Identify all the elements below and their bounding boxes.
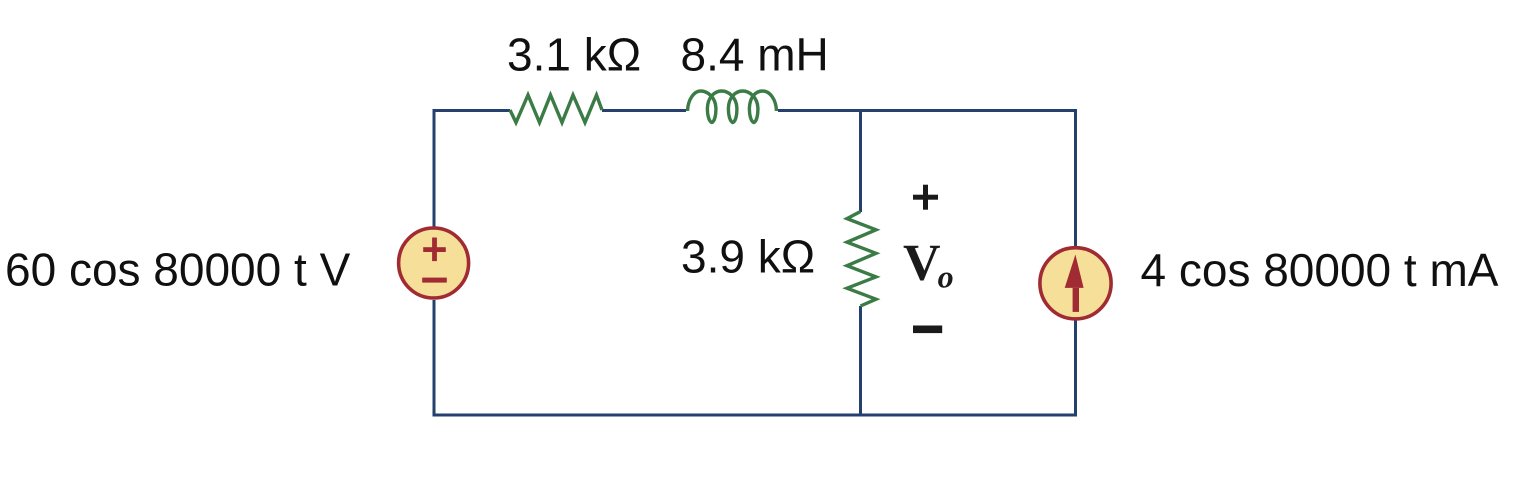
inductor L1 8.4 mH (coil) xyxy=(688,91,777,123)
wire middle branch lower xyxy=(859,306,862,415)
wire right lower xyxy=(1074,321,1077,417)
svg-text:Vo: Vo xyxy=(903,235,954,295)
wire top-left segment xyxy=(433,111,1078,417)
wire bottom rail xyxy=(433,414,1078,417)
wire middle branch upper xyxy=(859,111,862,213)
minus sign below Vo xyxy=(913,326,942,334)
wire between R1 and L1 xyxy=(602,109,686,112)
current source arrow xyxy=(1065,255,1084,312)
svg-text:3.9 kΩ: 3.9 kΩ xyxy=(681,231,815,283)
svg-text:4 cos 80000 t mA: 4 cos 80000 t mA xyxy=(1141,244,1499,296)
resistor R1 3.1 kOhm (horizontal zigzag) xyxy=(510,95,602,123)
resistor R2 3.9 kOhm (vertical zigzag) xyxy=(847,212,876,307)
voltage source plus sign xyxy=(422,238,447,283)
svg-text:60 cos 80000 t V: 60 cos 80000 t V xyxy=(5,244,351,296)
current source I1 circle xyxy=(1040,248,1111,319)
voltage source V1 circle xyxy=(399,228,469,298)
svg-text:8.4 mH: 8.4 mH xyxy=(681,29,829,81)
svg-text:3.1 kΩ: 3.1 kΩ xyxy=(507,29,641,81)
plus sign above Vo xyxy=(913,185,938,210)
wire top-right from inductor to right corner xyxy=(778,111,1076,247)
wire bottom xyxy=(433,300,436,417)
voltage source minus sign xyxy=(422,278,447,283)
